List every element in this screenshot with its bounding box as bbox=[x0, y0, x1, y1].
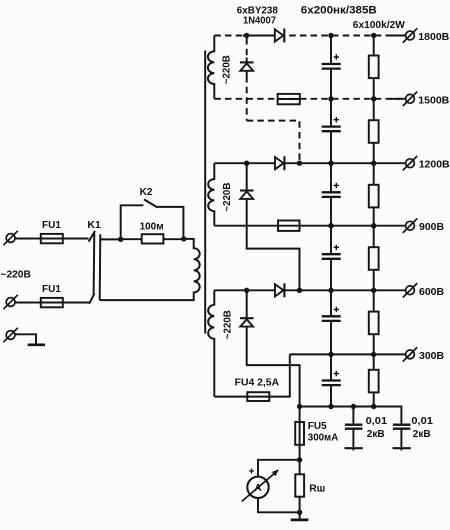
capacitor C2 bbox=[322, 99, 341, 163]
resistor R2 bbox=[369, 120, 379, 143]
svg-text:900В: 900В bbox=[419, 221, 445, 233]
svg-text:FU4 2,5A: FU4 2,5A bbox=[235, 378, 280, 389]
input terminal X3 (earth) bbox=[3, 328, 17, 342]
svg-text:~220В: ~220В bbox=[1, 270, 31, 281]
node row3-res bbox=[371, 161, 376, 166]
resistor R4 bbox=[369, 247, 379, 270]
terminal 300V bbox=[403, 347, 445, 362]
node row1-caps bbox=[328, 33, 333, 38]
node bus-res bbox=[371, 404, 376, 409]
wire row 1500V (dashed) bbox=[214, 98, 405, 100]
node row5-caps bbox=[328, 288, 333, 293]
capacitor C1 bbox=[322, 36, 341, 99]
diode VD2 (vertical) bbox=[240, 62, 254, 70]
svg-text:~220В: ~220В bbox=[222, 55, 233, 84]
svg-text:Rш: Rш bbox=[309, 484, 325, 495]
stage3 connector wire bbox=[247, 290, 300, 406]
node bus-left bbox=[297, 404, 302, 409]
node ammeter-bottom bbox=[297, 510, 302, 515]
node row5-diode out bbox=[297, 288, 302, 293]
svg-text:K1: K1 bbox=[87, 219, 101, 231]
svg-text:1800В: 1800В bbox=[418, 31, 449, 43]
terminal 1800V bbox=[403, 28, 450, 43]
node row6-res bbox=[371, 352, 376, 357]
node row4-res bbox=[371, 223, 376, 228]
capacitor C8 0.01/2kV bbox=[393, 425, 411, 451]
wire row 1500V solid part bbox=[278, 98, 300, 100]
node row4-caps bbox=[328, 223, 333, 228]
node ammeter-top bbox=[297, 457, 302, 462]
wire row 1800V solid part bbox=[243, 35, 276, 37]
node row3-stage2 bbox=[244, 161, 249, 166]
fuse FU4 bbox=[247, 392, 269, 401]
diode VD4 (vertical) bbox=[240, 191, 254, 199]
diode VD5 bbox=[275, 283, 284, 297]
svg-text:~220В: ~220В bbox=[222, 310, 233, 339]
wire input bottom bbox=[15, 302, 90, 304]
fuse FU2 bbox=[278, 94, 300, 104]
terminal 1200V bbox=[403, 156, 450, 171]
wire row 1200V bbox=[214, 162, 405, 164]
resistor 100m bbox=[142, 234, 164, 243]
ammeter branch bottom wire bbox=[258, 498, 300, 512]
svg-text:FU5: FU5 bbox=[308, 421, 327, 432]
svg-text:FU1: FU1 bbox=[42, 284, 61, 295]
node B bbox=[181, 236, 186, 241]
svg-text:300мА: 300мА bbox=[308, 433, 339, 444]
ground (output common) bbox=[291, 512, 309, 520]
svg-text:1N4007: 1N4007 bbox=[243, 15, 276, 26]
wire row 600V bbox=[214, 289, 405, 291]
terminal 900V bbox=[403, 219, 445, 234]
terminal 1500V bbox=[403, 92, 450, 107]
resistor Rsh bbox=[295, 474, 304, 496]
node row2-caps bbox=[328, 96, 333, 101]
svg-text:6x200нк/385В: 6x200нк/385В bbox=[301, 4, 377, 16]
fuse FU5 bbox=[295, 422, 304, 445]
wire row 1800V (dashed) bbox=[214, 35, 405, 37]
node row5-stage3 bbox=[244, 288, 249, 293]
capacitor C5 bbox=[322, 290, 341, 354]
svg-text:FU1: FU1 bbox=[42, 220, 61, 231]
ammeter PA1 branch top wire bbox=[258, 460, 300, 477]
transformer core bbox=[204, 51, 206, 334]
resistor R6 bbox=[369, 370, 379, 393]
resistor column wire bbox=[373, 36, 375, 407]
stage2 connector wire bbox=[247, 163, 300, 290]
terminal 600V bbox=[403, 283, 445, 298]
fuse FU5 wire bbox=[299, 407, 301, 460]
node row5-res bbox=[371, 288, 376, 293]
relay contact K2 branch bbox=[121, 187, 184, 240]
resistor Rsh wire bbox=[299, 460, 301, 513]
resistor R5 bbox=[369, 312, 379, 335]
resistor R1 bbox=[369, 56, 379, 79]
switch K1 bbox=[87, 219, 101, 304]
resistor R3 bbox=[369, 185, 379, 208]
stage1 connector wire (dashed) bbox=[247, 38, 300, 163]
capacitor C3 bbox=[322, 163, 341, 226]
input terminal X2 (neutral) bbox=[3, 295, 17, 309]
fuse FU4 wire bbox=[214, 354, 289, 396]
secondary winding II (top) bbox=[208, 36, 214, 99]
secondary winding IV (bottom) bbox=[208, 290, 214, 396]
diode VD3 bbox=[275, 156, 284, 170]
wire row 900V bbox=[214, 225, 405, 227]
node row3-caps bbox=[328, 161, 333, 166]
input terminal X1 (line) bbox=[3, 231, 17, 245]
wire to ground bbox=[15, 334, 36, 344]
svg-text:600В: 600В bbox=[419, 286, 445, 298]
fuse FU1 (bottom) bbox=[41, 298, 63, 307]
node row6-caps bbox=[328, 352, 333, 357]
svg-text:2кВ: 2кВ bbox=[367, 429, 385, 440]
wire input top bbox=[15, 238, 88, 240]
node bus-caps bbox=[328, 404, 333, 409]
common bus wire bbox=[300, 407, 402, 425]
svg-text:K2: K2 bbox=[140, 187, 153, 198]
capacitor C4 bbox=[322, 226, 341, 291]
wire K1 to node A bbox=[100, 238, 121, 240]
svg-text:~220В: ~220В bbox=[222, 183, 233, 212]
fuse FU1 (top) bbox=[41, 234, 63, 243]
transformer T1 primary winding bbox=[100, 239, 200, 300]
ground (chassis) bbox=[28, 343, 45, 346]
wire through R soft-start bbox=[121, 238, 184, 240]
svg-text:6x100k/2W: 6x100k/2W bbox=[353, 20, 405, 31]
diode VD1 bbox=[275, 29, 285, 43]
svg-text:2кВ: 2кВ bbox=[413, 429, 431, 440]
node row1-res bbox=[371, 33, 376, 38]
capacitor C7 0.01/2kV bbox=[345, 407, 363, 451]
svg-text:1500В: 1500В bbox=[418, 94, 449, 106]
secondary winding III (middle) bbox=[208, 163, 214, 226]
svg-text:300В: 300В bbox=[419, 350, 445, 362]
node bus-c7 bbox=[351, 404, 356, 409]
svg-text:100м: 100м bbox=[140, 221, 164, 233]
node row2-res bbox=[371, 96, 376, 101]
ammeter PA1 bbox=[242, 469, 279, 502]
diode VD6 (vertical) bbox=[240, 318, 254, 326]
svg-text:1200В: 1200В bbox=[419, 159, 450, 171]
node row3-diode out bbox=[297, 161, 302, 166]
svg-text:0,01: 0,01 bbox=[366, 416, 388, 427]
node A bbox=[118, 237, 123, 242]
svg-text:0,01: 0,01 bbox=[411, 416, 433, 427]
capacitor C6 bbox=[322, 354, 341, 406]
node row1-stage1 bbox=[244, 33, 249, 38]
wire row 300V bbox=[290, 353, 406, 355]
fuse FU3 bbox=[278, 221, 300, 231]
